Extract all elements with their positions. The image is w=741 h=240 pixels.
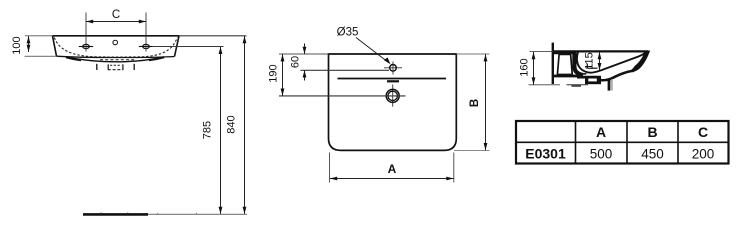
dim 190: drain level ext (279, 95, 406, 97)
dim A: ext lines (329, 153, 331, 183)
basin front: right side edge (175, 36, 180, 57)
under-rim dark band at wall (554, 52, 573, 54)
beak bottom junction (630, 67, 637, 72)
rim top ext (530, 50, 554, 52)
dim 115: dimension line (599, 52, 601, 70)
dim 60: tap level ext (301, 69, 390, 71)
dimension 785: extension line at tap level (152, 46, 224, 48)
trap white window (588, 79, 597, 82)
dimension 785: dimension line (220, 47, 222, 214)
drain (top view) (386, 85, 399, 107)
dim A: dimension line (330, 178, 454, 180)
rim top line (553, 50, 649, 52)
dim B: top ext (456, 53, 489, 55)
svg-text:A: A (388, 162, 397, 176)
bottle trap legs (96, 64, 98, 70)
table outer border (516, 121, 729, 164)
dimension 100: extension lines (25, 35, 53, 37)
basin front: top rim line (53, 35, 180, 37)
svg-text:60: 60 (290, 56, 302, 68)
table column separators (575, 121, 577, 164)
hidden fitting dash (387, 80, 399, 82)
underside sweep (601, 71, 635, 81)
outlet pipe (608, 79, 611, 91)
trap block (585, 79, 601, 85)
svg-text:115: 115 (584, 52, 596, 70)
overflow hole (113, 40, 118, 45)
svg-text:500: 500 (590, 146, 613, 161)
dim B: dimension line (485, 54, 487, 150)
inner rim line (338, 78, 447, 80)
dimension C: extension lines through tap holes (85, 13, 87, 52)
basin front: bottom edge (57, 56, 175, 57)
bowl inner cut surface (577, 52, 646, 73)
svg-text:A: A (596, 124, 606, 140)
overflow detail horizontal (587, 67, 597, 69)
under-trap tick (567, 84, 589, 86)
dim 60: top ext (basin top extended) (279, 53, 329, 55)
wall bracket (white window) (557, 54, 572, 74)
dimension C: dimension line (86, 21, 146, 23)
svg-text:160: 160 (519, 58, 531, 76)
floor tick 2 (127, 213, 129, 214)
basin back wall band (574, 52, 583, 75)
floor line thin (148, 213, 247, 215)
svg-text:B: B (647, 124, 657, 140)
svg-text:C: C (112, 9, 120, 21)
dim 160: dimension line (533, 52, 535, 85)
basin front: left side edge (53, 36, 57, 56)
basin front: apron end joins (66, 57, 164, 60)
floor dot 1 (157, 212, 159, 215)
svg-text:C: C (698, 124, 708, 140)
left tap hole cross (79, 44, 93, 48)
label D35 leader (356, 38, 389, 63)
floor tick 1 (100, 213, 102, 214)
table row separator (516, 141, 729, 143)
svg-text:200: 200 (692, 146, 715, 161)
basin front: hidden bowl curve (dashed) (54, 38, 177, 58)
drain box under basin (108, 64, 124, 70)
dimension 840: extension line at rim level (179, 35, 247, 37)
front edge beak (632, 50, 650, 72)
floor dot 2 (196, 212, 198, 215)
tap hole (top view) (384, 62, 402, 75)
svg-text:450: 450 (641, 146, 664, 161)
dim 190: dimension line (282, 54, 284, 95)
bracket bottom dark band (554, 75, 578, 78)
dimension 100: dimension line (28, 36, 30, 52)
overflow detail vertical (586, 64, 588, 69)
svg-text:Ø35: Ø35 (337, 27, 359, 39)
floor line thick (83, 213, 148, 216)
svg-text:785: 785 (202, 121, 214, 139)
svg-text:E0301: E0301 (525, 145, 566, 161)
bottom band over trap (577, 76, 601, 79)
dimension 840: dimension line (244, 36, 246, 214)
svg-text:B: B (469, 99, 481, 107)
under-trap dark dash (572, 85, 582, 87)
far bowl rim line (578, 73, 587, 75)
dim 160: bottom ext (529, 84, 561, 86)
pipe gray edge (611, 79, 613, 91)
svg-text:100: 100 (11, 36, 23, 54)
basin front: apron curve (67, 57, 164, 62)
basin top view outline (329, 54, 457, 150)
dim 60: arrows outside (304, 44, 306, 55)
dim B: bottom ext (454, 149, 490, 151)
wall line (552, 43, 554, 84)
basin front: hidden drain line (dashed) (100, 59, 136, 61)
svg-text:840: 840 (226, 115, 238, 133)
right tap hole cross (139, 44, 153, 48)
svg-text:190: 190 (268, 64, 280, 82)
